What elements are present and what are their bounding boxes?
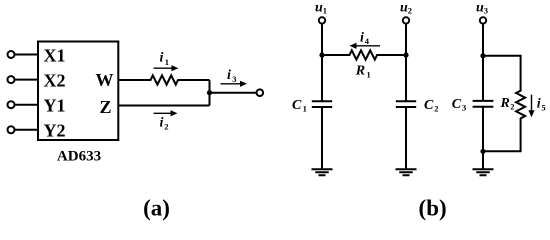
svg-text:C: C bbox=[452, 97, 462, 112]
svg-text:X1: X1 bbox=[44, 45, 66, 65]
svg-text:Y1: Y1 bbox=[44, 96, 66, 116]
svg-text:Y2: Y2 bbox=[44, 121, 66, 141]
svg-text:2: 2 bbox=[164, 121, 168, 131]
svg-text:AD633: AD633 bbox=[57, 148, 101, 164]
svg-text:3: 3 bbox=[232, 74, 236, 84]
svg-text:1: 1 bbox=[303, 104, 307, 114]
svg-text:u: u bbox=[476, 1, 484, 16]
svg-text:(a): (a) bbox=[143, 195, 170, 220]
svg-text:X2: X2 bbox=[44, 70, 66, 90]
svg-text:C: C bbox=[424, 98, 434, 113]
svg-text:u: u bbox=[315, 1, 323, 16]
svg-text:u: u bbox=[400, 1, 408, 16]
svg-text:W: W bbox=[96, 70, 114, 90]
svg-text:i: i bbox=[360, 30, 364, 45]
svg-text:5: 5 bbox=[541, 102, 545, 112]
svg-text:2: 2 bbox=[408, 5, 412, 15]
svg-text:1: 1 bbox=[367, 69, 371, 79]
svg-text:R: R bbox=[500, 96, 510, 111]
svg-text:R: R bbox=[355, 64, 365, 79]
svg-text:Z: Z bbox=[99, 97, 111, 117]
svg-text:i: i bbox=[537, 96, 541, 111]
svg-text:2: 2 bbox=[434, 104, 438, 114]
svg-text:(b): (b) bbox=[419, 195, 447, 220]
svg-text:i: i bbox=[160, 51, 164, 66]
svg-text:3: 3 bbox=[462, 103, 466, 113]
svg-text:4: 4 bbox=[365, 36, 370, 46]
svg-text:C: C bbox=[292, 98, 302, 113]
svg-text:i: i bbox=[160, 116, 164, 131]
svg-text:i: i bbox=[227, 68, 231, 83]
svg-text:2: 2 bbox=[510, 102, 514, 112]
svg-text:1: 1 bbox=[323, 5, 327, 15]
svg-text:1: 1 bbox=[165, 57, 169, 67]
svg-text:3: 3 bbox=[484, 5, 488, 15]
